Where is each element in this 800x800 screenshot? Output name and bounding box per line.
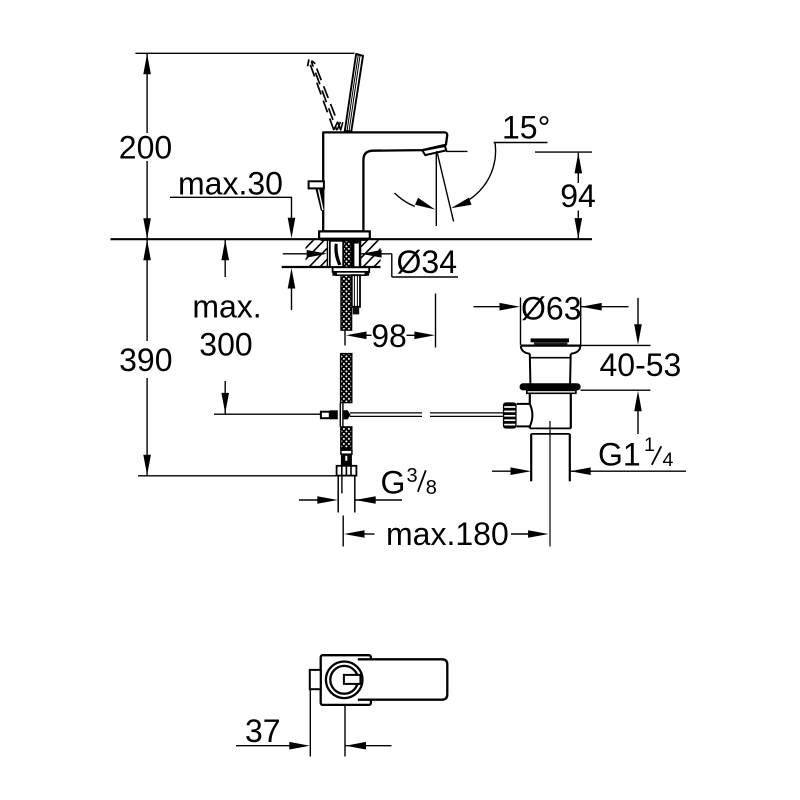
hose end cap [341,447,352,450]
dim max180 left tail [364,533,375,535]
flexible supply hose middle segment [341,354,352,403]
spray slanted line [437,151,454,222]
dim max300 line upper [224,239,226,277]
svg-text:G: G [381,465,406,501]
flexible supply hose upper segment [341,241,352,330]
dim 40-53 arrow up [634,391,642,412]
svg-text:max.180: max.180 [386,516,509,552]
knob knurl slot 4 [504,419,515,421]
knob knurl slot 1 [504,406,515,408]
dim max.30 leader down [291,197,293,220]
horseshoe flange [336,272,366,275]
horizontal pop-up rod segment 1 bottom [350,415,422,417]
svg-text:Ø34: Ø34 [397,244,457,280]
top view outer circle [326,662,363,699]
dim diam34 leader vertical [391,254,393,277]
svg-text:300: 300 [199,326,252,362]
countertop underside line [282,266,381,268]
dim 37 arrow left [289,742,310,750]
lever handle dashed alternate position line C [315,64,341,130]
dim 37 right extension [344,706,346,757]
top view spout rectangle [358,659,448,699]
spray vertical line [435,153,437,227]
max.300 bottom reference line / rod reference [214,413,322,415]
svg-text:15°: 15° [502,110,550,146]
dim 98 right extension line [435,294,437,348]
dim G1-1/4 arrow right [570,467,591,475]
aerator reference line right segment [535,151,592,153]
fitting notch [345,456,347,461]
rod boss on valve [517,404,530,427]
dim G3/8 right tail [355,499,402,501]
flange left curve [521,346,530,354]
dim 98 left tail [365,334,372,336]
boss ball bulge [530,404,533,427]
vertical pull rod right line [342,403,344,427]
dim 40-53 bottom reference line [581,389,651,391]
aerator reference line left segment [446,150,468,152]
flexible supply hose lower segment [341,427,352,449]
dim G1-1/4 left tail [492,470,512,472]
rod thread line A [353,276,355,306]
dim diam34 left tail [283,253,310,255]
clamp stud dark band [351,242,354,268]
pull arm highlight [319,190,323,211]
hose fitting body [341,454,352,466]
svg-text:200: 200 [119,129,172,165]
knob knurl slot 3 [504,415,515,417]
valve center line [549,421,551,547]
dim diam63 right extension [580,298,582,345]
dim max.30 arrow up [288,268,296,289]
clamp top bar [350,240,359,244]
counter hole left wall [326,240,328,266]
dim 200 line lower [146,161,148,239]
nut knurl line B [345,466,347,475]
aerator spout tip [422,146,446,155]
G1 1/4 pipe right side [569,434,571,481]
pop-up pull tab [309,181,324,188]
lever inner line A [347,55,358,132]
dim max.30 underline [170,196,292,198]
top view side tab [310,670,321,689]
angle arc right (15deg leader) [469,143,496,201]
flange right foot [365,272,370,276]
svg-text:4: 4 [663,449,674,471]
rod clevis black block [330,410,338,419]
dim diam34 arrow left [307,250,328,258]
dim diam63 arrow right [581,303,602,311]
angle arc left [395,193,415,207]
dim max180 right tail [511,533,529,535]
dim max.30 lower shaft [291,287,293,310]
countertop surface line [111,238,593,240]
dim diam63 right tail [581,306,628,308]
waste valve cap lip [534,342,568,345]
connection tail pipe right side [354,476,356,513]
seal lower flange [527,390,576,393]
shank cutaway wedge [334,244,341,266]
waste valve top flange line [521,345,581,347]
nut knurl line A [341,466,343,475]
vertical pull rod left line [339,403,341,427]
clamp piece right [352,242,360,268]
pull rod inside tail pipe [341,477,343,494]
dim 94 line upper [577,153,579,183]
hinge tick C [341,122,343,130]
svg-text:1: 1 [644,434,655,456]
dim diam34 arrow right [361,250,382,258]
flange left foot [332,272,336,276]
dim G3/8 slash [418,470,426,492]
valve groove upper line [530,427,571,429]
dim 40-53 line lower [637,410,639,434]
dashed lever tip [308,59,316,66]
dim 37 left tail [236,745,290,747]
flange right curve [571,346,581,354]
G3/8 connection nut [337,466,357,476]
svg-text:40-53: 40-53 [600,347,682,383]
svg-text:98: 98 [371,318,407,354]
base flange bar [321,239,369,241]
rod clamp right block [344,410,351,419]
dim max300 arrow down [221,393,229,414]
dim G1-1/4 arrow left [511,467,532,475]
threaded mounting rod [352,275,360,307]
dim 37 right tail [346,745,392,747]
dim 200 top reference line [135,52,354,54]
svg-text:390: 390 [119,342,172,378]
connection tail pipe left side [337,476,339,513]
hinge tick B [337,122,340,130]
dim G3/8 arrow right [355,496,376,504]
dim diam34 right tail [361,253,392,255]
rod end foot [353,307,359,315]
G1 1/4 pipe left side [530,434,532,481]
dim 390 arrow down [143,455,151,476]
hinge tick A [334,122,338,130]
dim 98 left extension line [344,330,346,346]
dim G3/8 arrow left [317,496,338,504]
dim 94 arrow down [575,218,583,239]
valve body right side [570,393,572,428]
svg-text:max.: max. [192,288,261,324]
faucet base plate [319,231,370,238]
dim 98 arrow right [414,332,435,340]
top view inner circle [330,666,358,694]
dim G3/8 left tail [299,499,318,501]
dim G1-1/4 right tail [570,470,686,472]
knob knurl slot 2 [504,410,515,412]
dim 390 line lower [146,378,148,476]
faucet body outline [323,132,447,231]
lever inner line B [349,55,360,131]
dim 390 arrow up [143,240,151,261]
dim 200 arrow up [143,54,151,75]
top view base square [321,655,371,705]
dim max300 arrow up [221,240,229,261]
counter hole right wall [360,240,362,266]
dim G1-1/4 slash [652,446,662,465]
svg-text:3: 3 [407,465,418,487]
mounting washer [333,267,370,272]
rubber seal ring [520,383,581,390]
valve groove lower line [531,433,570,435]
dim diam63 left extension [520,298,522,345]
lever handle dashed alternate position line A [309,60,334,130]
svg-text:8: 8 [426,477,437,499]
pop-up pull arm [315,188,324,210]
lever handle dashed alternate position line B [311,62,336,131]
valve neck right side [569,354,572,384]
dim 94 arrow up [575,153,583,174]
dim max.30 arrow down [288,218,296,239]
svg-text:G1: G1 [598,437,641,473]
dim max180 arrow right [528,530,549,538]
angle arc left arrowhead [415,198,435,210]
waste valve plug cap [531,338,569,342]
dim diam34 underline [392,276,458,278]
boss bottom line [517,425,530,427]
valve body left side upper [529,393,531,404]
mounting shank tube [330,241,343,267]
rod thread line B [356,276,358,306]
top view lever knob rect [344,675,361,684]
dim 40-53 line upper [637,298,639,325]
dim 40-53 top reference line [579,344,651,346]
dim max180 left extension [342,516,344,547]
dim 98 arrow left [346,332,367,340]
dim 200 arrow down [143,218,151,239]
dim 37 arrow right [346,742,367,750]
svg-text:37: 37 [245,713,281,749]
dim 94 line lower [577,211,579,239]
knob knurl slot 5 [504,424,515,426]
valve neck ring line [530,357,570,359]
hose fitting collar [341,450,352,454]
valve neck left side [529,354,532,384]
horizontal pop-up rod segment 2 bottom [430,415,504,417]
dim max180 arrow left [344,530,365,538]
dim 40-53 arrow down [634,324,642,345]
dim 98 right tail [407,334,416,336]
rod clevis eye [321,412,330,419]
angle arc right arrowhead [451,198,472,209]
dim 200 line upper [146,53,148,133]
valve body left side lower [529,426,531,428]
dim 390 bottom reference line [138,475,337,477]
dim max300 line lower [224,381,226,414]
svg-text:max.30: max.30 [178,165,283,201]
dim 37 left extension [309,690,311,757]
dim 390 line upper [146,239,148,341]
dim diam63 left tail [474,306,503,308]
boss top line [517,403,530,405]
horizontal pop-up rod segment 2 top [430,412,504,414]
svg-text:94: 94 [560,178,596,214]
svg-text:Ø63: Ø63 [521,291,581,327]
dim diam63 arrow left [500,303,521,311]
knurled adjusting knob [503,402,517,428]
horizontal pop-up rod segment 1 top [350,412,422,414]
nut knurl line C [350,466,352,475]
lever handle solid position [345,54,363,131]
dim 15deg underline [494,142,548,144]
countertop hatching [286,239,412,269]
